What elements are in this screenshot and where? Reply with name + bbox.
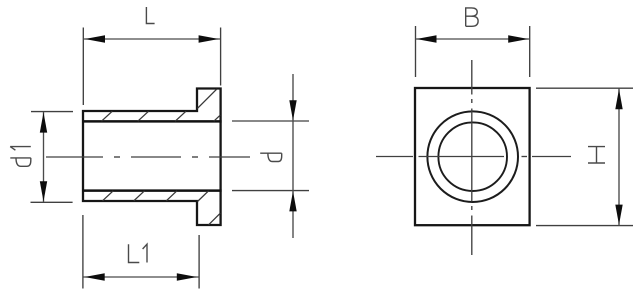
dimension B: extension line right <box>529 26 531 77</box>
dimension B: right arrow <box>508 35 528 42</box>
dimension L: extension line left <box>82 28 84 106</box>
dimension L: dimension line <box>84 38 220 40</box>
dimension L1: left arrow <box>85 273 105 280</box>
dimension d: extension line bottom <box>232 190 309 192</box>
label H (rotated) <box>588 147 605 163</box>
hatch top band line 3 <box>175 111 186 121</box>
hatch top flange small corner line <box>214 115 220 121</box>
dimension L1: dimension line <box>84 276 199 278</box>
hatch bottom flange diagonal 2 <box>209 213 221 225</box>
hatch top flange main diagonal <box>197 89 217 109</box>
dimension d1: bottom arrow <box>40 181 47 201</box>
dimension L: extension line right <box>220 28 222 86</box>
dimension d: dimension line <box>292 74 294 238</box>
hatch bottom band line 1 <box>103 191 114 201</box>
hatch bottom flange diagonal 1 <box>198 191 209 202</box>
label d (rotated) <box>260 153 282 161</box>
dimension L1: extension line right <box>198 235 200 289</box>
label B <box>466 8 478 26</box>
dimension L: right arrow <box>199 35 219 42</box>
bore line top <box>82 120 222 123</box>
dimension H: top arrow (points up) <box>615 89 622 109</box>
dimension H: extension line top <box>536 87 633 89</box>
hatch top band line 1 <box>102 111 113 121</box>
dimension L1: extension line left <box>82 215 84 289</box>
dimension d1: extension line bottom <box>31 201 73 203</box>
hatch top band line 2 <box>138 111 149 121</box>
dimension H: dimension line <box>618 89 620 226</box>
horizontal center line right view <box>376 156 571 158</box>
dimension H: extension line bottom <box>536 225 633 227</box>
dimension B: extension line left <box>415 26 417 77</box>
dimension d1: dimension line <box>43 112 45 202</box>
dimension H: bottom arrow (points down) <box>615 205 622 225</box>
label L <box>146 7 154 24</box>
hatch bottom band line 3 <box>166 191 177 201</box>
body outline (section, left view) <box>83 89 221 226</box>
square body outline (right view) <box>415 88 530 225</box>
dimension L: left arrow <box>85 35 105 42</box>
bore line bottom <box>82 189 222 192</box>
dimension d1: top arrow <box>40 112 47 132</box>
hatch bottom band line 2 <box>134 191 145 201</box>
label d1 (rotated) <box>10 147 31 167</box>
dimension d1: extension line top <box>31 111 73 113</box>
dimension d: bottom arrow (points up) <box>289 191 296 211</box>
dimension d: top arrow (points down) <box>289 100 296 120</box>
dimension B: left arrow <box>416 35 436 42</box>
dimension L1: right arrow <box>177 273 197 280</box>
dimension B: dimension line <box>416 38 529 40</box>
dimension d: extension line top <box>232 120 309 122</box>
vertical center line right view <box>471 60 473 255</box>
label L1 <box>129 244 148 262</box>
outer circle <box>427 111 518 202</box>
inner circle (bore) <box>438 122 507 191</box>
center line left view <box>46 156 250 158</box>
